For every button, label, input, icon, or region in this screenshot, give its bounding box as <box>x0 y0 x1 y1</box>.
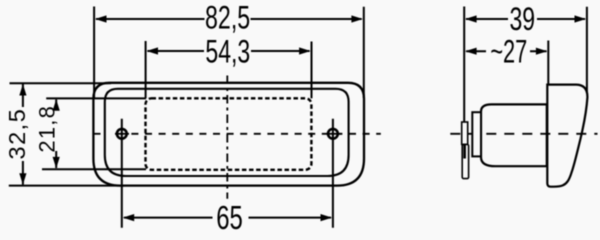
svg-text:21,8: 21,8 <box>34 105 59 153</box>
svg-text:39: 39 <box>509 2 535 38</box>
svg-text:65: 65 <box>216 201 243 235</box>
svg-text:32,5: 32,5 <box>4 108 30 160</box>
svg-text:82,5: 82,5 <box>205 0 250 35</box>
svg-text:~27: ~27 <box>490 33 527 69</box>
svg-text:54,3: 54,3 <box>205 34 250 70</box>
